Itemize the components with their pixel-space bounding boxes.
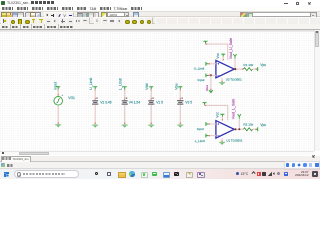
svg-text:V2 3.46: V2 3.46 bbox=[100, 100, 112, 104]
svg-text:Vout: Vout bbox=[205, 84, 209, 90]
svg-text:Input: Input bbox=[54, 81, 58, 89]
svg-text:U1 TLV3501: U1 TLV3501 bbox=[226, 138, 242, 142]
svg-text:Vpu: Vpu bbox=[260, 122, 266, 126]
svg-text:U_Limit: U_Limit bbox=[89, 77, 93, 89]
svg-text:R1 10k: R1 10k bbox=[243, 62, 253, 66]
svg-text:V3 5: V3 5 bbox=[185, 100, 192, 104]
svg-text:VG1: VG1 bbox=[68, 96, 75, 100]
svg-text:Vcc: Vcc bbox=[216, 111, 220, 117]
svg-text:Vout_L_Safe: Vout_L_Safe bbox=[232, 98, 236, 119]
svg-text:Input: Input bbox=[198, 77, 205, 81]
svg-text:Vcc: Vcc bbox=[216, 52, 220, 58]
svg-text:V4 1.54: V4 1.54 bbox=[129, 100, 141, 104]
svg-text:U_Limit: U_Limit bbox=[194, 66, 205, 70]
svg-text:L_Limit: L_Limit bbox=[195, 138, 205, 142]
svg-text:Vout_U_Safe: Vout_U_Safe bbox=[229, 37, 233, 58]
svg-text:+: + bbox=[61, 92, 63, 96]
svg-text:Vpu: Vpu bbox=[260, 63, 266, 67]
svg-text:Vdd: Vdd bbox=[145, 83, 149, 89]
svg-text:R2 10k: R2 10k bbox=[243, 122, 253, 126]
svg-text:V1 5: V1 5 bbox=[156, 100, 163, 104]
svg-text:L_Limit: L_Limit bbox=[118, 78, 122, 90]
svg-text:Input: Input bbox=[197, 127, 204, 131]
svg-text:Vpu: Vpu bbox=[174, 83, 178, 89]
svg-text:U3 TLV3501: U3 TLV3501 bbox=[226, 77, 242, 81]
